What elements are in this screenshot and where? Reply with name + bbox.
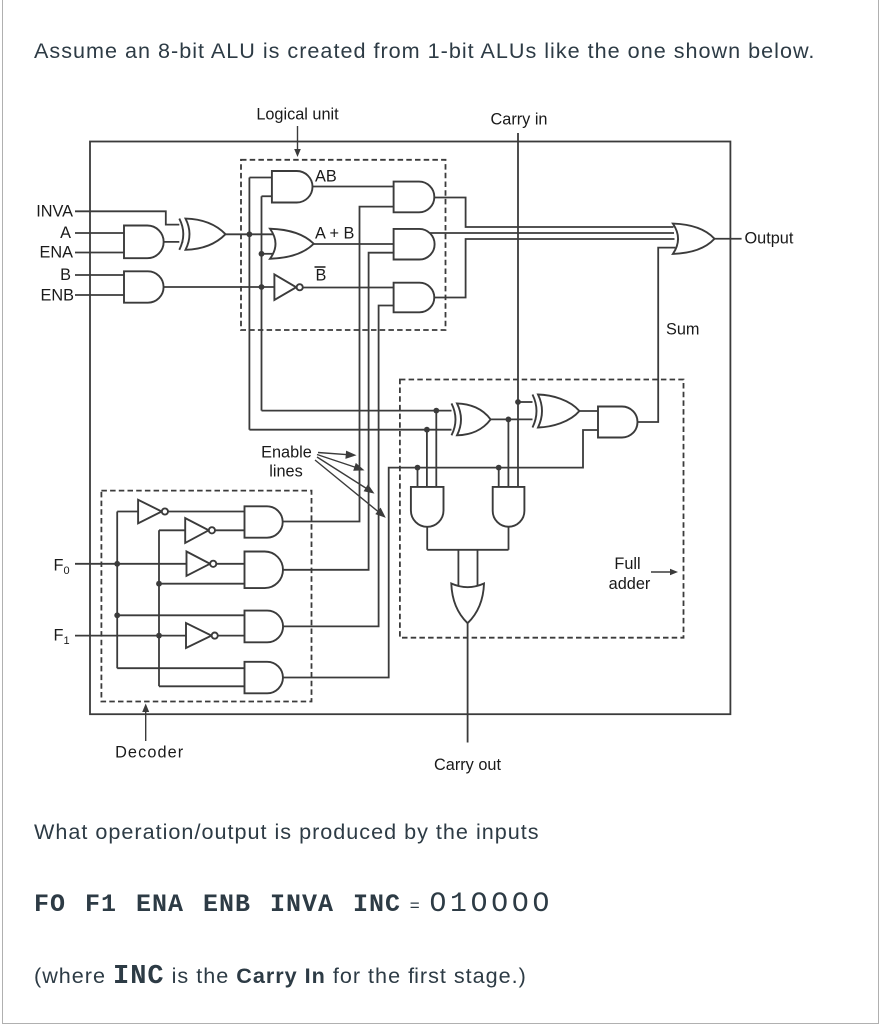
- wire carry OR input right: [477, 550, 479, 586]
- wire enable line 2: [283, 253, 394, 570]
- inverter Bbar triangle: [274, 274, 296, 300]
- svg-text:Logical unit: Logical unit: [256, 106, 339, 124]
- wire B input: [75, 274, 124, 276]
- label Bbar overline: [315, 266, 326, 268]
- wire enable stub to carry AND a: [417, 468, 419, 487]
- svg-text:F1: F1: [54, 627, 70, 648]
- wire A' stub to carry AND a: [426, 430, 428, 487]
- wire B' to AB gate bottom input: [262, 195, 272, 197]
- wire inverter output Bbar to enable gate 3: [303, 287, 394, 289]
- XOR gate input-conditioning: body: [186, 219, 226, 250]
- wire AND1 output to XOR: [164, 241, 184, 243]
- full adder XOR1: back arc: [452, 403, 456, 435]
- wire carry in branch to XOR2: [518, 401, 534, 403]
- wire F0 to inverter 1: [117, 511, 138, 513]
- wire OR output A+B to enable gate 2: [314, 243, 394, 245]
- svg-text:Output: Output: [745, 230, 794, 248]
- logical unit dashed box: [241, 160, 446, 330]
- svg-text:lines: lines: [269, 463, 303, 481]
- junction XOR1 output: [506, 417, 512, 423]
- enable AND gate 1: [394, 182, 435, 213]
- arrow Decoder: [145, 709, 147, 741]
- wire inverter 2 output: [215, 529, 244, 531]
- junction enable at carry AND a: [415, 465, 421, 471]
- wire XOR1 output stub to carry AND b: [507, 419, 509, 487]
- svg-text:ENB: ENB: [41, 287, 74, 305]
- wire carry OR input left: [457, 550, 459, 586]
- decoder inverter 3 bubble: [210, 561, 216, 567]
- full adder AND3 (sum enable): [598, 407, 638, 438]
- svg-text:AB: AB: [315, 168, 337, 186]
- XOR gate input-conditioning: back arc: [179, 219, 183, 250]
- inverter Bbar bubble: [297, 284, 303, 290]
- OR gate A+B: [270, 229, 314, 259]
- wire F0 input: [75, 563, 187, 565]
- arrow enable line 4: [315, 460, 378, 512]
- decoder inverter 2 bubble: [209, 527, 215, 533]
- wire XOR2 output to AND3: [579, 410, 598, 412]
- code line: [34, 891, 553, 919]
- wire F1 to decoder gate 4: [159, 685, 245, 687]
- wire sum: AND3 output to output OR: [638, 248, 676, 422]
- arrow Logical unit: [297, 126, 299, 150]
- decoder inverter 3 triangle: [187, 552, 211, 576]
- junction F1 to gate2: [156, 581, 162, 587]
- wire enable line 3: [283, 306, 394, 627]
- arrow enable line 2: [317, 455, 356, 468]
- svg-text:ENA: ENA: [40, 244, 74, 262]
- wire F1 input: [75, 635, 186, 637]
- decoder inverter 4 bubble: [212, 633, 218, 639]
- wire inverter 3 output: [217, 563, 245, 565]
- wire A' to AB gate top input: [249, 177, 272, 179]
- wire B' to OR gate bottom input: [262, 253, 275, 255]
- decoder AND gate 2: [245, 552, 283, 589]
- wire enable line 4 to full adder: [283, 430, 598, 678]
- wire inverter 4 output: [218, 635, 245, 637]
- junction node A' on XOR output: [247, 231, 253, 237]
- output OR gate: [673, 224, 715, 254]
- svg-text:A + B: A + B: [315, 225, 354, 243]
- wire XOR output node A': [226, 233, 274, 235]
- junction F0 line: [114, 561, 120, 567]
- svg-text:INVA: INVA: [36, 203, 73, 221]
- carry AND gate b: [493, 487, 525, 527]
- decoder AND gate 3: [245, 611, 284, 643]
- wire A' to full adder XOR bottom input: [249, 429, 454, 431]
- junction enable at carry AND b: [496, 465, 502, 471]
- wire A input: [75, 232, 124, 234]
- wire inverter 1 output: [168, 511, 244, 513]
- decoder dashed box: [101, 491, 311, 702]
- footnote line: [34, 964, 527, 991]
- svg-text:Decoder: Decoder: [115, 743, 184, 761]
- svg-text:adder: adder: [609, 575, 651, 593]
- wire enable gate 1 output to output OR: [434, 198, 673, 228]
- svg-text:B: B: [60, 266, 71, 284]
- full adder XOR2: body: [538, 395, 579, 428]
- wire F0 vertical branch: [116, 512, 118, 669]
- wire node B' vertical branch: [261, 196, 263, 410]
- wire F1 vertical branch: [158, 530, 160, 686]
- svg-text:B: B: [316, 267, 327, 285]
- wire F0 to decoder gate 4: [117, 667, 244, 669]
- svg-text:Sum: Sum: [666, 321, 699, 339]
- carry AND gate a: [411, 487, 444, 527]
- wire ENA input: [75, 252, 124, 254]
- carry OR gate: [451, 584, 484, 624]
- wire XOR1 output to XOR2: [491, 418, 535, 420]
- enable AND gate 3: [394, 283, 435, 313]
- junction F1 line: [156, 633, 162, 639]
- wire enable line 1: [283, 207, 394, 522]
- title text: [34, 40, 815, 62]
- decoder inverter 1 bubble: [162, 508, 168, 514]
- svg-text:A: A: [60, 224, 71, 242]
- wire carry AND join bar: [427, 549, 508, 551]
- wire carry in line: [517, 133, 519, 487]
- decoder AND gate 1: [245, 506, 283, 537]
- full adder XOR1: body: [457, 403, 491, 435]
- junction B' at full adder: [433, 408, 439, 414]
- arrow enable line 1: [318, 453, 348, 455]
- AND gate A-ENA: [124, 226, 164, 259]
- enable AND gate 2: [394, 229, 435, 260]
- arrow enable line 3: [317, 457, 367, 489]
- wire node A' vertical branch: [248, 178, 250, 430]
- svg-text:Full: Full: [614, 555, 640, 573]
- junction node B' at OR input: [259, 251, 265, 257]
- wire carry AND a output: [426, 527, 428, 550]
- svg-text:F0: F0: [54, 557, 70, 578]
- wire enable gate 3 output to output OR: [434, 239, 674, 298]
- svg-text:Enable: Enable: [261, 444, 312, 462]
- full adder dashed box: [400, 380, 684, 638]
- decoder AND gate 4: [245, 662, 283, 694]
- svg-text:Carry out: Carry out: [434, 756, 501, 774]
- wire AND2 output node B': [164, 286, 275, 288]
- wire enable gate 2 output to output OR: [430, 232, 675, 234]
- AND gate B-ENB: [124, 271, 164, 302]
- AND gate AB: [272, 171, 313, 203]
- wire enable stub to carry AND b: [498, 468, 500, 487]
- wire carry AND b output: [508, 527, 510, 550]
- wire INVA input: [75, 211, 182, 224]
- outer ALU box: [90, 142, 730, 715]
- wire F0 to decoder gate 3: [117, 614, 244, 616]
- question text: [34, 821, 540, 843]
- decoder inverter 4 triangle: [186, 623, 212, 648]
- decoder inverter 1 triangle: [138, 500, 162, 524]
- arrow Full adder: [651, 571, 671, 573]
- svg-text:Carry in: Carry in: [491, 111, 548, 129]
- wire B' stub to carry AND a: [435, 411, 437, 487]
- junction A' at full adder: [424, 427, 430, 433]
- wire F1 to inverter 2: [159, 529, 185, 531]
- wire B' to full adder XOR top input: [262, 410, 454, 412]
- junction F0 to gate3: [114, 612, 120, 618]
- wire carry out: [467, 623, 469, 742]
- full adder XOR2: back arc: [533, 395, 537, 428]
- junction carry-in branch: [515, 399, 521, 405]
- wire output: [715, 238, 742, 240]
- wire ENB input: [75, 294, 124, 296]
- wire F1 to decoder gate 2: [159, 583, 245, 585]
- decoder inverter 2 triangle: [185, 518, 209, 543]
- junction node B' on AND2 output: [259, 284, 265, 290]
- wire AB output to enable gate 1: [313, 186, 394, 188]
